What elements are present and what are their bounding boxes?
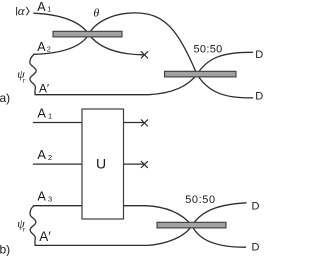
svg-text:b): b) bbox=[0, 243, 10, 257]
svg-text:D: D bbox=[252, 200, 260, 212]
svg-text:A: A bbox=[37, 0, 46, 14]
svg-text:A′: A′ bbox=[39, 229, 51, 244]
svg-text:50:50: 50:50 bbox=[185, 194, 216, 206]
wire A1 input to U (fig b) bbox=[34, 122, 83, 124]
svg-text:r: r bbox=[23, 76, 26, 84]
wire BS2 upper output to detector D bbox=[197, 52, 253, 74]
unitary box U bbox=[82, 109, 124, 219]
wire BS2 lower output to detector D bbox=[197, 74, 253, 98]
label |alpha> input state bbox=[17, 3, 30, 18]
terminator X on U output 2 bbox=[141, 161, 147, 167]
svg-text:A: A bbox=[37, 106, 46, 121]
terminator X on BS1 lower output bbox=[141, 52, 148, 59]
wire A1 input to BS1 bbox=[34, 13, 89, 34]
wire A2 input to BS1 bbox=[34, 34, 89, 54]
svg-text:A′: A′ bbox=[39, 82, 49, 96]
svg-text:A: A bbox=[37, 147, 46, 162]
wire U output 3 to BS3 bbox=[124, 206, 192, 226]
beam splitter BS1 (theta) bbox=[53, 31, 122, 37]
wire A3 input to U (fig b) bbox=[34, 205, 83, 207]
svg-text:α: α bbox=[18, 3, 26, 18]
wire BS3 upper output to detector D bbox=[192, 203, 246, 226]
svg-text:θ: θ bbox=[93, 5, 99, 19]
svg-text:a): a) bbox=[0, 91, 10, 105]
svg-text:50:50: 50:50 bbox=[194, 44, 223, 56]
svg-text:2: 2 bbox=[47, 46, 51, 53]
wire U output 2 stub bbox=[124, 163, 143, 165]
svg-text:A: A bbox=[37, 40, 46, 54]
svg-text:2: 2 bbox=[48, 153, 52, 162]
wire BS1 lower output to terminator bbox=[89, 34, 143, 55]
svg-text:D: D bbox=[255, 49, 263, 61]
squiggle reference-state link a bbox=[30, 55, 36, 95]
svg-text:A: A bbox=[37, 189, 46, 204]
svg-text:D: D bbox=[252, 241, 260, 253]
svg-text:1: 1 bbox=[48, 112, 52, 121]
wire A' input to BS2 bbox=[35, 74, 197, 94]
svg-text:3: 3 bbox=[48, 195, 52, 204]
wire U output 1 stub bbox=[124, 122, 143, 124]
terminator X on U output 1 bbox=[141, 120, 147, 126]
svg-text:U: U bbox=[96, 155, 106, 171]
wire BS3 lower output to detector D bbox=[192, 226, 246, 248]
svg-text:1: 1 bbox=[47, 7, 51, 14]
beam splitter BS2 (50:50) bbox=[165, 71, 237, 77]
svg-text:r: r bbox=[23, 225, 26, 233]
beam splitter BS3 (50:50) bbox=[157, 222, 226, 228]
wire A2 input to U (fig b) bbox=[34, 163, 83, 165]
wire BS1 upper output arc to BS2 bbox=[89, 13, 197, 74]
wire A' input to BS3 bbox=[35, 226, 192, 246]
svg-text:D: D bbox=[255, 90, 263, 102]
squiggle reference-state link b bbox=[30, 206, 36, 245]
